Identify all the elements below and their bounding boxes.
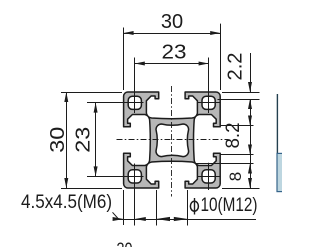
svg-text:10(M12): 10(M12) xyxy=(201,195,258,216)
profile body (30x30 T-slot aluminium extrusion cross-section) xyxy=(124,92,221,188)
dim line 8 xyxy=(250,164,252,189)
svg-text:30: 30 xyxy=(117,240,133,247)
label phi symbol bar xyxy=(194,198,196,215)
svg-text:30: 30 xyxy=(47,127,69,153)
svg-text:23: 23 xyxy=(73,127,95,153)
centerline BR hole horizontal xyxy=(197,176,220,178)
svg-text:8: 8 xyxy=(226,172,245,181)
arrow 30-left bottom xyxy=(64,178,68,188)
arrow bottom slot right xyxy=(174,217,188,221)
centerline TR hole horizontal xyxy=(197,102,220,104)
ext line 23-left top xyxy=(87,102,144,104)
ext line bottom slot-right xyxy=(187,190,189,226)
dim line 30-top xyxy=(124,33,221,35)
ext line right y92 xyxy=(222,92,260,94)
arrow 30-top right xyxy=(210,31,220,35)
dim line 2.2 lower tail xyxy=(250,99,252,126)
table border line right edge xyxy=(276,94,278,154)
dim line 23-top xyxy=(135,63,209,65)
dim line 2.2 upper tail xyxy=(250,53,252,92)
ext line bottom left-edge xyxy=(123,190,125,225)
ext line bottom hole-center xyxy=(134,164,136,226)
ext line 30-left bottom xyxy=(61,188,122,190)
arrow 30-top left xyxy=(124,31,134,35)
blue scroll thumb right edge xyxy=(277,153,284,191)
arrow bottom slot left xyxy=(156,217,170,221)
svg-text:8.2: 8.2 xyxy=(223,123,244,149)
svg-text:4.5x4.5(M6): 4.5x4.5(M6) xyxy=(21,192,112,213)
dim line link xyxy=(250,155,252,164)
centerline BR hole vertical xyxy=(208,163,210,190)
ext line right y99 xyxy=(218,99,260,101)
dim line 8.2 xyxy=(250,126,252,155)
dim line bottom xyxy=(113,219,256,221)
ext line 23-top left xyxy=(134,58,136,114)
arrow bottom at hole center xyxy=(135,217,146,221)
arrow 2.2 up xyxy=(248,99,252,109)
label phi symbol circle xyxy=(190,201,198,211)
svg-text:2.2: 2.2 xyxy=(225,53,247,81)
centerline vertical xyxy=(171,86,173,197)
centerline horizontal xyxy=(117,139,229,141)
arrow 23-top left xyxy=(135,62,145,66)
leader 4.5x4.5(M6) xyxy=(113,212,119,219)
arrow chain down at y125.5 xyxy=(248,116,252,126)
arrow 2.2 down xyxy=(248,82,252,92)
arrow 8 up xyxy=(248,164,252,174)
svg-text:30: 30 xyxy=(161,11,183,33)
arrow 8.2 down xyxy=(248,145,252,155)
ext line 23-left bottom xyxy=(87,176,144,178)
arrow bottom at left edge xyxy=(113,217,124,221)
dim line 23-left xyxy=(95,103,97,177)
arrow 23-top right xyxy=(199,62,209,66)
ext line right y163.5 cavity floor xyxy=(195,163,254,165)
ext line right y187.6 xyxy=(222,188,260,190)
ext line right y154.5 slot lip lower xyxy=(221,154,254,156)
ext line 23-top right xyxy=(208,58,210,114)
ext line bottom slot-left xyxy=(156,190,158,226)
arrow 8 down xyxy=(248,178,252,188)
arrow 23-left bottom xyxy=(94,166,98,176)
ext line right y125.5 slot lip upper xyxy=(221,125,254,127)
ext line 30-top left xyxy=(123,28,125,91)
ext line 30-top right xyxy=(220,24,222,90)
svg-text:23: 23 xyxy=(162,42,187,64)
arrow 30-left top xyxy=(64,92,68,102)
ext line 30-left top xyxy=(61,92,122,94)
dim line 30-left xyxy=(66,92,68,188)
arrow 23-left top xyxy=(94,103,98,113)
